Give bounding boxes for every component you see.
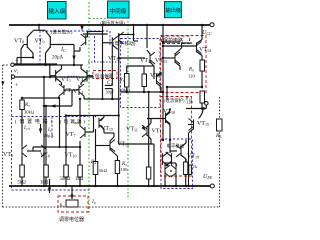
svg-text:vi: vi [14,69,18,75]
svg-text:RL: RL [215,133,222,139]
svg-text:1kΩ: 1kΩ [75,177,84,182]
svg-text:电平移动: 电平移动 [167,143,185,150]
svg-text:VT1: VT1 [61,77,71,83]
svg-text:(电平移动): (电平移动) [113,40,136,47]
svg-text:VT19: VT19 [187,154,199,160]
svg-text:VT15: VT15 [101,126,113,132]
svg-text:保护电路: 保护电路 [163,37,183,44]
svg-text:IC: IC [60,47,66,53]
svg-text:R9: R9 [188,68,194,73]
svg-text:VT16: VT16 [140,58,152,64]
svg-text:调零电位器: 调零电位器 [59,216,84,223]
svg-text:VT14: VT14 [199,47,211,53]
svg-text:VT15: VT15 [197,121,209,127]
svg-text:VT18: VT18 [163,109,175,115]
svg-text:VT9: VT9 [35,39,45,45]
svg-text:VT12: VT12 [152,129,164,135]
svg-text:1kΩ: 1kΩ [40,181,49,186]
svg-text:UCC: UCC [202,30,212,36]
svg-text:VT5: VT5 [3,152,13,158]
svg-text:120: 120 [186,100,194,105]
svg-text:1k: 1k [193,164,198,169]
svg-text:输入级: 输入级 [49,7,66,15]
svg-text:28μA: 28μA [44,133,55,138]
svg-text:VT11: VT11 [126,127,138,133]
svg-text:VT13: VT13 [155,58,167,64]
svg-text:VT10: VT10 [117,142,129,148]
svg-text:30kΩ: 30kΩ [119,89,131,94]
svg-text:VT12: VT12 [108,56,120,62]
svg-text:R7: R7 [119,78,125,83]
svg-text:VT7: VT7 [66,132,76,138]
svg-text:30pF: 30pF [106,90,115,95]
svg-text:Io: Io [91,199,96,205]
svg-text:IC5: IC5 [23,126,30,131]
svg-text:R3: R3 [24,103,30,108]
svg-text:VT17: VT17 [150,73,162,79]
svg-text:(电压放大级): (电压放大级) [100,20,125,27]
svg-text:VT8: VT8 [14,39,24,45]
svg-text:30kΩ: 30kΩ [24,110,35,115]
svg-text:20μA: 20μA [52,56,64,61]
svg-text:100: 100 [121,167,129,172]
svg-text:UEE: UEE [203,174,213,180]
svg-text:C1: C1 [107,81,112,86]
svg-text:VT10: VT10 [65,153,77,159]
svg-text:5kΩ: 5kΩ [18,181,27,186]
svg-text:5kΩ: 5kΩ [99,168,108,173]
svg-text:恒流偏置: 恒流偏置 [95,73,114,80]
svg-text:VT2: VT2 [76,77,86,83]
svg-text:50kΩ: 50kΩ [60,177,71,182]
svg-text:120: 120 [188,74,196,79]
svg-text:(差分放大): (差分放大) [51,29,73,36]
svg-text:VT3VT4: VT3VT4 [63,88,83,95]
svg-text:(过流保护): (过流保护) [164,97,185,104]
svg-text:中间级: 中间级 [110,7,127,15]
svg-text:输出级: 输出级 [166,6,182,14]
svg-text:R4: R4 [90,160,96,165]
svg-text:VT6: VT6 [40,153,50,159]
svg-text:−: − [15,59,19,65]
